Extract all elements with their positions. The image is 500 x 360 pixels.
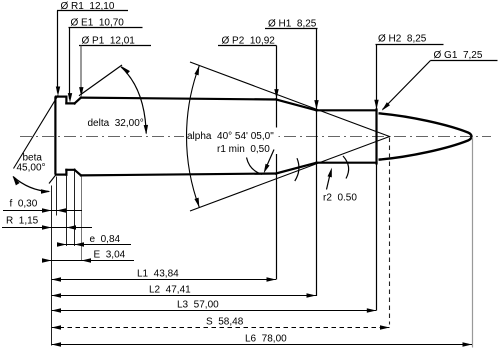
rim top xyxy=(56,95,66,97)
svg-text:r1 min 0,50: r1 min 0,50 xyxy=(217,144,270,155)
label P1 xyxy=(79,36,151,97)
label H2 xyxy=(374,34,443,311)
beta angle arc xyxy=(13,177,49,192)
extension line groove front xyxy=(74,171,76,246)
beta bevel leader xyxy=(14,95,59,168)
shoulder xyxy=(276,100,317,174)
label E1 xyxy=(68,18,143,103)
bottom bevel leader xyxy=(49,174,57,184)
r1 radius arc xyxy=(247,158,263,175)
delta angle arc xyxy=(121,67,146,134)
svg-text:Ø P1 12,01: Ø P1 12,01 xyxy=(82,36,136,47)
svg-text:L6 78,00: L6 78,00 xyxy=(245,334,287,345)
svg-text:Ø H1 8,25: Ø H1 8,25 xyxy=(268,19,317,30)
svg-text:e 0,84: e 0,84 xyxy=(90,234,121,245)
svg-text:delta 32,00°: delta 32,00° xyxy=(88,118,144,129)
dimension L6 xyxy=(52,334,473,347)
svg-text:45,00°: 45,00° xyxy=(17,163,46,174)
svg-text:Ø G1 7,25: Ø G1 7,25 xyxy=(434,50,483,61)
label H1 xyxy=(265,19,319,297)
svg-text:r2 0.50: r2 0.50 xyxy=(323,193,357,204)
svg-text:S 58,48: S 58,48 xyxy=(206,317,244,328)
svg-text:E 3,04: E 3,04 xyxy=(94,250,126,261)
centerline axis xyxy=(20,136,491,138)
groove ramp xyxy=(75,98,82,176)
svg-text:R 1,15: R 1,15 xyxy=(6,216,39,227)
bullet ogive xyxy=(379,113,472,159)
r2 radius arc right xyxy=(343,156,349,179)
svg-text:Ø E1 10,70: Ø E1 10,70 xyxy=(71,18,125,29)
case mouth xyxy=(375,110,377,164)
r1 leader arrow xyxy=(265,150,274,170)
dimension e xyxy=(57,234,131,247)
dimension L1 xyxy=(52,269,277,282)
text mask xyxy=(184,128,279,155)
extension line bullet tip xyxy=(472,137,474,348)
label R1 xyxy=(56,1,128,96)
svg-text:L2 47,41: L2 47,41 xyxy=(149,285,191,296)
case body xyxy=(81,98,276,176)
svg-text:Ø P2 10,92: Ø P2 10,92 xyxy=(222,36,276,47)
dimension R xyxy=(2,216,92,230)
dimension f xyxy=(3,199,82,213)
neck xyxy=(317,110,377,162)
svg-text:Ø H2 8,25: Ø H2 8,25 xyxy=(378,34,427,45)
r2 radius arc left xyxy=(295,158,299,181)
dimension L3 xyxy=(52,300,377,313)
rim face xyxy=(54,98,56,174)
rim bottom xyxy=(56,174,66,176)
svg-text:L1 43,84: L1 43,84 xyxy=(137,269,179,280)
extension line head face datum xyxy=(51,186,53,346)
svg-text:f 0,30: f 0,30 xyxy=(10,199,38,210)
rim rear wall xyxy=(65,97,67,175)
dimension S dashed xyxy=(52,317,390,330)
delta taper construction ray xyxy=(79,65,122,96)
svg-text:alpha 40° 54' 05,0": alpha 40° 54' 05,0" xyxy=(187,131,274,142)
extractor groove floor xyxy=(66,103,74,169)
label P2 xyxy=(218,36,279,280)
extension line body start xyxy=(81,177,83,262)
svg-text:L3 57,00: L3 57,00 xyxy=(177,300,219,311)
dimension L2 xyxy=(52,285,317,298)
cartridge case profile xyxy=(55,97,376,176)
alpha construction rays xyxy=(190,62,390,211)
label G1 xyxy=(380,50,497,112)
extension line rim rear xyxy=(66,176,68,247)
r2 leader arrow xyxy=(327,171,331,190)
alpha angle arc xyxy=(187,66,200,208)
dimension E xyxy=(42,250,134,263)
extension line S vertex dashed xyxy=(389,138,391,325)
extension line rim face xyxy=(56,177,58,216)
